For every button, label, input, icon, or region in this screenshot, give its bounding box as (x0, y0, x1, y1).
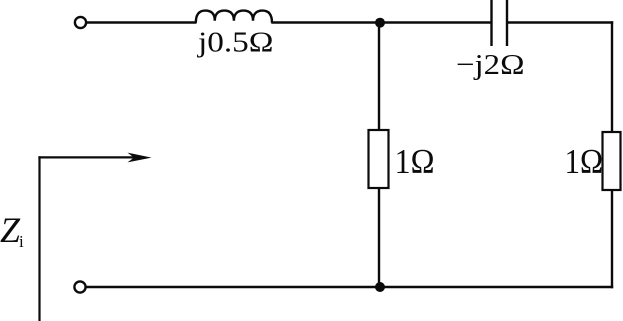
wire top segment from capacitor to right branch (507, 21, 613, 23)
inductor L1 j0.5 ohm (196, 11, 272, 23)
impedance indicator arrow shaft (38, 156, 143, 158)
wire middle branch upper (378, 23, 380, 132)
node junction dot top (375, 18, 385, 28)
wire right branch lower (611, 190, 613, 288)
wire top segment from terminal to inductor (87, 21, 197, 23)
terminal bottom-left (74, 281, 85, 292)
capacitor C1 right plate (506, 0, 508, 46)
impedance indicator vertical line (38, 156, 40, 321)
wire top segment from inductor to capacitor (271, 21, 491, 23)
wire right branch upper (611, 21, 613, 133)
capacitor C1 left plate (490, 0, 492, 46)
node junction dot bottom (375, 282, 385, 292)
svg-text:i: i (19, 232, 24, 251)
svg-text:Z: Z (0, 210, 21, 250)
terminal top-left (75, 17, 86, 28)
svg-text:−j2Ω: −j2Ω (456, 49, 525, 81)
resistor R1 1 ohm (middle) (369, 130, 389, 188)
svg-text:1Ω: 1Ω (565, 142, 604, 181)
wire middle branch lower (378, 188, 380, 287)
svg-text:1Ω: 1Ω (395, 142, 435, 181)
impedance indicator arrowhead (128, 153, 152, 163)
resistor R2 1 ohm (right) (603, 132, 621, 190)
wire bottom (86, 286, 613, 288)
svg-text:j0.5Ω: j0.5Ω (197, 27, 274, 59)
